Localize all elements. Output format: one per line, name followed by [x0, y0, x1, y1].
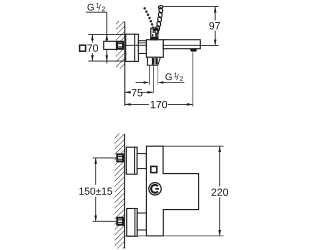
supply pipe stub [104, 41, 117, 49]
wall section hatch [116, 21, 125, 69]
escutcheon (side view) [126, 34, 139, 61]
joystick base dark marks [153, 29, 157, 33]
supply axis line through escutcheon and nut [124, 44, 147, 46]
mixer body (side view) [146, 40, 163, 58]
dim 70 line with arrows [91, 34, 93, 42]
dim 150±15 line with arrows [95, 158, 97, 185]
aerator axis extension line [192, 52, 194, 107]
connector nut lower (plan) [137, 213, 146, 230]
label G1/2 lower with arrows [136, 82, 145, 84]
dim 97 text [209, 22, 220, 29]
wall section hatch (plan) [115, 134, 125, 249]
dim 170 text [151, 101, 167, 108]
dim 97 extension lines [164, 6, 219, 8]
dim 70 square symbol [80, 45, 86, 51]
fitting lower (plan) [117, 218, 123, 225]
dim 220 text [212, 188, 229, 195]
joystick base column [151, 28, 158, 40]
aerator [190, 49, 197, 52]
dim 70 text [87, 44, 98, 51]
dim 75 line with arrows [125, 91, 131, 93]
dim 220 line with arrows [219, 146, 221, 186]
connector nut [138, 41, 146, 54]
fitting upper (plan) [117, 154, 123, 161]
wall union fitting G1/2 [117, 42, 123, 49]
fitting inner bars [118, 43, 122, 45]
label G1/2 top [87, 3, 104, 11]
small square detail (plan) [151, 166, 157, 172]
escutcheon front ring line [134, 34, 136, 61]
dim 97 line with arrows [214, 7, 216, 21]
mixer body with spout (plan view) [146, 146, 198, 236]
label G1/2 underline [86, 11, 107, 13]
outlet extension ticks [148, 66, 150, 85]
dim 150±15 text [79, 188, 112, 195]
dim 170 line with arrows [125, 103, 149, 105]
spout mid line / supply axis line [163, 44, 200, 46]
dim 150±15 extension lines [93, 157, 117, 159]
GROHE logo circle [149, 183, 161, 195]
dim 220 extension lines [164, 145, 224, 147]
leader line from G1/2 to fitting [106, 12, 108, 41]
dim 70 extension lines [88, 33, 125, 35]
wall face line [124, 22, 126, 106]
bottom outlet port [147, 57, 160, 65]
dim 75 text [132, 89, 143, 96]
escutcheon lower (plan) [127, 209, 138, 237]
lever motion dotted arc [143, 7, 154, 29]
joystick lever (twisted / in motion) [155, 5, 163, 34]
spout (side view) [163, 40, 200, 49]
outlet dark bars [152, 58, 155, 65]
wall face line (plan) [124, 134, 126, 249]
connector nut upper (plan) [137, 154, 146, 169]
escutcheon upper (plan) [126, 147, 137, 174]
